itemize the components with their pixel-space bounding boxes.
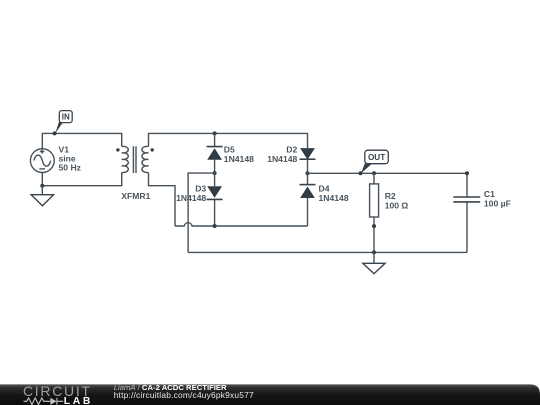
- transformer XFMR1 primary coil: [116, 146, 128, 172]
- svg-text:D2: D2: [286, 145, 297, 155]
- junction dot C1 top corner: [465, 171, 469, 175]
- wire secondary bottom to bridge bottom rail: [149, 173, 176, 226]
- node IN attach dot: [53, 131, 57, 135]
- wire output mid-right to C1: [308, 173, 468, 197]
- junction dot mid-right node: [306, 171, 310, 175]
- label R2 100 Ohm: [385, 191, 409, 210]
- svg-text:1N4148: 1N4148: [319, 193, 349, 203]
- label D2 1N4148: [267, 145, 297, 165]
- transformer core: [133, 146, 136, 173]
- label C1 100 uF: [484, 189, 511, 208]
- ground at lower rail: [363, 252, 385, 273]
- svg-text:1N4148: 1N4148: [176, 193, 206, 203]
- svg-text:100 Ω: 100 Ω: [385, 200, 409, 210]
- wire bridge bottom rail with hop: [175, 223, 308, 226]
- footer logo LAB: [64, 396, 93, 405]
- svg-text:OUT: OUT: [368, 153, 385, 162]
- footer title: [114, 383, 227, 392]
- svg-text:LAB: LAB: [64, 396, 93, 405]
- junction dot V1 bottom: [40, 184, 44, 188]
- voltage source V1: [30, 149, 54, 173]
- footer logo mini schematic: [24, 398, 64, 405]
- footer logo CIRCUIT: [23, 383, 92, 399]
- svg-text:1N4148: 1N4148: [224, 154, 254, 164]
- label D3 1N4148: [176, 184, 206, 203]
- junction dot mid-left node: [213, 171, 217, 175]
- resistor R2: [370, 173, 379, 252]
- diode D3: [207, 173, 223, 226]
- label D5 1N4148: [224, 145, 254, 165]
- svg-text:50 Hz: 50 Hz: [59, 163, 81, 173]
- junction dot R2 lead joint: [372, 224, 376, 228]
- capacitor C1: [453, 197, 480, 252]
- diode D5: [207, 133, 223, 173]
- label XFMR1: [121, 191, 150, 201]
- svg-text:IN: IN: [62, 113, 70, 122]
- wire top from V1 to primary: [42, 133, 121, 149]
- svg-text:100 µF: 100 µF: [484, 199, 511, 209]
- wire secondary top rail: [149, 133, 308, 146]
- junction dot bottom rail at D3: [213, 224, 217, 228]
- label D4 1N4148: [319, 184, 349, 203]
- transformer XFMR1 secondary coil: [142, 146, 154, 172]
- diode D2: [300, 147, 316, 174]
- svg-text:http://circuitlab.com/c4uy6pk9: http://circuitlab.com/c4uy6pk9xu577: [114, 390, 254, 400]
- wire V1 bottom to primary bottom: [42, 173, 121, 186]
- node OUT attach dot: [359, 171, 363, 175]
- svg-text:D5: D5: [224, 145, 235, 155]
- wire lower rail: [188, 251, 467, 253]
- flag OUT: [361, 150, 388, 173]
- junction dot R2 top: [372, 171, 376, 175]
- ground under V1: [31, 186, 53, 206]
- footer bar: [0, 384, 540, 405]
- wire mid-left node to lower rail: [188, 173, 215, 252]
- footer url: [114, 390, 254, 400]
- label V1 sine 50 Hz: [59, 144, 81, 172]
- flag IN: [55, 111, 72, 134]
- junction dot lower rail at ground: [372, 250, 376, 254]
- junction dot top rail at D5: [213, 131, 217, 135]
- svg-text:1N4148: 1N4148: [267, 154, 297, 164]
- svg-text:XFMR1: XFMR1: [121, 191, 150, 201]
- diode D4: [300, 173, 316, 226]
